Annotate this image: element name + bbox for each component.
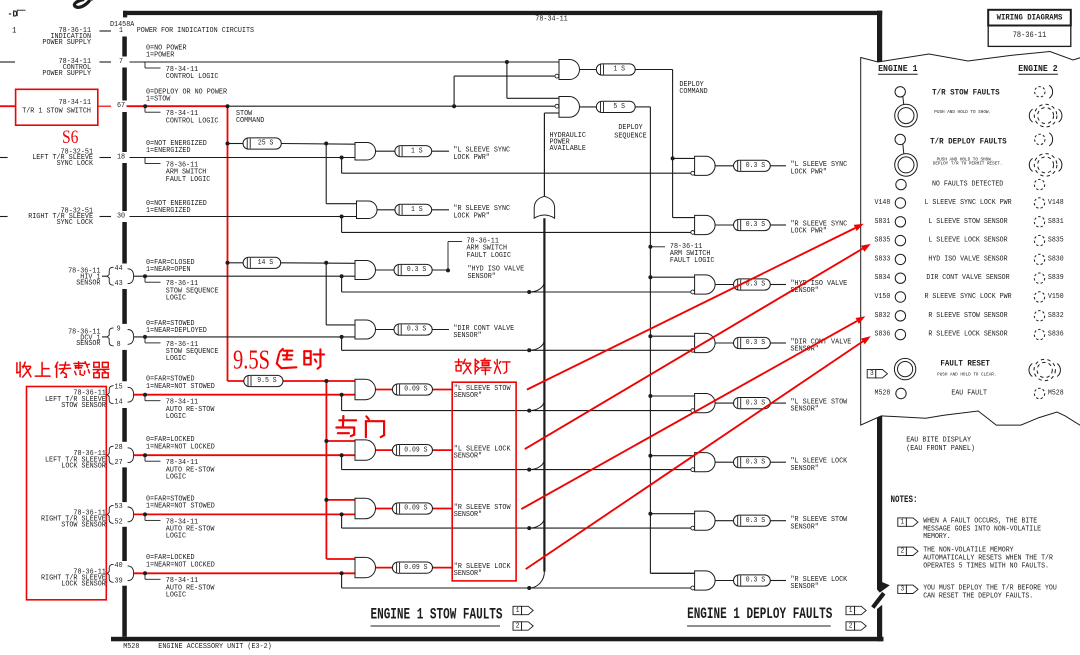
svg-text:30: 30 <box>117 213 125 221</box>
svg-text:HYD ISO VALVE SENSOR: HYD ISO VALVE SENSOR <box>928 255 1008 263</box>
svg-text:DEPLOY: DEPLOY <box>618 124 643 132</box>
svg-text:R SLEEVE LOCK SENSOR: R SLEEVE LOCK SENSOR <box>928 331 1008 339</box>
svg-text:78-34-11: 78-34-11 <box>535 15 568 23</box>
svg-text:0.09 S: 0.09 S <box>404 446 428 454</box>
svg-text:0.3 S: 0.3 S <box>746 517 766 525</box>
svg-text:ENGINE 2: ENGINE 2 <box>1018 63 1058 74</box>
svg-text:53: 53 <box>115 503 123 511</box>
svg-text:SENSOR": SENSOR" <box>791 523 819 531</box>
svg-text:0.09 S: 0.09 S <box>404 505 428 513</box>
svg-text:T/R 1 STOW SWITCH: T/R 1 STOW SWITCH <box>22 108 91 116</box>
svg-text:L SLEEVE SYNC LOCK PWR: L SLEEVE SYNC LOCK PWR <box>924 199 1012 207</box>
svg-text:52: 52 <box>115 518 123 526</box>
svg-text:1: 1 <box>516 607 520 615</box>
svg-text:9.5S: 9.5S <box>233 345 270 375</box>
svg-text:POWER SUPPLY: POWER SUPPLY <box>42 70 91 78</box>
svg-text:0.3 S: 0.3 S <box>746 577 766 585</box>
svg-text:M528: M528 <box>1048 390 1064 398</box>
svg-text:S836: S836 <box>875 331 891 339</box>
svg-text:EAU FAULT: EAU FAULT <box>951 390 987 398</box>
svg-text:43: 43 <box>115 280 123 288</box>
svg-text:LOCK PWR": LOCK PWR" <box>453 212 489 220</box>
svg-text:1 S: 1 S <box>411 147 423 155</box>
svg-text:AVAILABLE: AVAILABLE <box>550 145 587 153</box>
svg-text:SENSOR": SENSOR" <box>454 511 482 519</box>
svg-text:SENSOR": SENSOR" <box>791 406 819 414</box>
svg-text:0.3 S: 0.3 S <box>746 281 766 289</box>
svg-text:COMMAND: COMMAND <box>679 88 708 96</box>
svg-text:LOGIC: LOGIC <box>166 474 187 482</box>
svg-text:AUTOMATICALLY RESETS WHEN THE: AUTOMATICALLY RESETS WHEN THE T/R <box>923 555 1053 563</box>
svg-text:S6: S6 <box>62 127 79 148</box>
svg-text:S833: S833 <box>875 255 891 263</box>
svg-text:1=STOW: 1=STOW <box>146 96 171 104</box>
svg-text:0.3 S: 0.3 S <box>746 162 766 170</box>
svg-text:1=NEAR=NOT STOWED: 1=NEAR=NOT STOWED <box>146 383 215 391</box>
svg-text:POWER SUPPLY: POWER SUPPLY <box>42 39 91 47</box>
svg-text:SENSOR": SENSOR" <box>454 570 482 578</box>
svg-text:14: 14 <box>115 399 123 407</box>
svg-text:DIR CONT VALVE SENSOR: DIR CONT VALVE SENSOR <box>926 274 1010 282</box>
svg-text:SENSOR": SENSOR" <box>791 583 819 591</box>
svg-text:S831: S831 <box>1048 218 1064 226</box>
svg-text:-D: -D <box>8 9 18 20</box>
svg-text:1=NEAR=NOT LOCKED: 1=NEAR=NOT LOCKED <box>146 561 215 569</box>
svg-text:SENSOR": SENSOR" <box>454 392 482 400</box>
svg-text:SENSOR": SENSOR" <box>468 273 496 281</box>
svg-text:S831: S831 <box>875 218 891 226</box>
svg-text:STOW SENSOR: STOW SENSOR <box>61 522 106 530</box>
svg-text:SENSOR": SENSOR" <box>453 332 481 340</box>
svg-text:SENSOR: SENSOR <box>76 340 101 348</box>
svg-text:SYNC LOCK: SYNC LOCK <box>57 219 94 227</box>
svg-text:S839: S839 <box>1048 274 1064 282</box>
svg-text:NOTES:: NOTES: <box>891 494 918 505</box>
svg-text:FAULT LOGIC: FAULT LOGIC <box>467 252 512 260</box>
svg-text:1: 1 <box>901 518 905 526</box>
svg-text:LOCK SENSOR: LOCK SENSOR <box>61 581 106 589</box>
svg-text:1=NEAR=OPEN: 1=NEAR=OPEN <box>146 266 191 274</box>
svg-text:CONTROL LOGIC: CONTROL LOGIC <box>166 73 219 81</box>
svg-text:1=NEAR=DEPLOYED: 1=NEAR=DEPLOYED <box>146 327 207 335</box>
svg-text:1=NEAR=NOT LOCKED: 1=NEAR=NOT LOCKED <box>146 443 215 451</box>
svg-text:S830: S830 <box>1048 255 1064 263</box>
svg-text:FAULT LOGIC: FAULT LOGIC <box>166 176 211 184</box>
svg-text:1: 1 <box>12 26 17 36</box>
svg-text:SEQUENCE: SEQUENCE <box>614 133 647 141</box>
svg-text:1=NEAR=NOT STOWED: 1=NEAR=NOT STOWED <box>146 503 215 511</box>
svg-text:15: 15 <box>115 384 123 392</box>
svg-text:LOGIC: LOGIC <box>166 592 187 600</box>
svg-text:14 S: 14 S <box>258 259 274 267</box>
svg-text:1 S: 1 S <box>613 66 625 74</box>
svg-text:ENGINE 1 STOW FAULTS: ENGINE 1 STOW FAULTS <box>371 605 503 623</box>
svg-text:ENGINE ACCESSORY UNIT (E3-2): ENGINE ACCESSORY UNIT (E3-2) <box>158 643 271 651</box>
svg-text:0.09 S: 0.09 S <box>404 564 428 572</box>
svg-text:V148: V148 <box>1048 199 1064 207</box>
svg-text:S832: S832 <box>1048 312 1064 320</box>
svg-text:SENSOR": SENSOR" <box>454 453 482 461</box>
svg-text:ENGINE 1: ENGINE 1 <box>878 63 918 74</box>
svg-text:FAULT LOGIC: FAULT LOGIC <box>670 257 715 265</box>
svg-text:0.3 S: 0.3 S <box>407 326 427 334</box>
svg-text:SENSOR": SENSOR" <box>791 465 819 473</box>
svg-text:1: 1 <box>849 607 853 615</box>
svg-text:T/R DEPLOY FAULTS: T/R DEPLOY FAULTS <box>930 137 1007 147</box>
svg-text:WHEN A FAULT OCCURS, THE BITE: WHEN A FAULT OCCURS, THE BITE <box>923 518 1037 526</box>
svg-text:25 S: 25 S <box>258 140 274 148</box>
svg-text:0.3 S: 0.3 S <box>407 266 427 274</box>
svg-text:0.3 S: 0.3 S <box>746 339 766 347</box>
svg-text:39: 39 <box>115 577 123 585</box>
svg-text:YOU MUST DEPLOY THE T/R BEFORE: YOU MUST DEPLOY THE T/R BEFORE YOU <box>923 585 1057 593</box>
svg-text:27: 27 <box>115 459 123 467</box>
svg-text:1=ENERGIZED: 1=ENERGIZED <box>146 147 191 155</box>
svg-text:0.09 S: 0.09 S <box>404 386 428 394</box>
svg-text:DEPLOY T/R TO PERMIT RESET.: DEPLOY T/R TO PERMIT RESET. <box>933 161 1003 167</box>
svg-text:S835: S835 <box>1048 237 1064 245</box>
svg-text:78-36-11: 78-36-11 <box>1013 31 1047 40</box>
svg-text:SYNC LOCK: SYNC LOCK <box>57 160 94 168</box>
svg-text:MESSAGE GOES INTO NON-VOLATILE: MESSAGE GOES INTO NON-VOLATILE <box>923 525 1041 533</box>
svg-text:(EAU FRONT PANEL): (EAU FRONT PANEL) <box>906 445 975 453</box>
svg-text:2: 2 <box>849 622 853 630</box>
svg-text:POWER FOR INDICATION CIRCUITS: POWER FOR INDICATION CIRCUITS <box>137 27 255 35</box>
svg-text:THE NON-VOLATILE MEMORY: THE NON-VOLATILE MEMORY <box>923 547 1014 555</box>
svg-text:40: 40 <box>115 562 123 570</box>
svg-text:LOGIC: LOGIC <box>166 295 187 303</box>
svg-text:18: 18 <box>117 154 125 162</box>
svg-text:7: 7 <box>119 58 123 66</box>
svg-text:NO FAULTS DETECTED: NO FAULTS DETECTED <box>932 181 1004 189</box>
svg-text:LOCK PWR": LOCK PWR" <box>791 228 827 236</box>
svg-text:67: 67 <box>117 102 125 110</box>
svg-text:1 S: 1 S <box>411 206 423 214</box>
svg-text:LOGIC: LOGIC <box>166 533 187 541</box>
svg-text:CONTROL LOGIC: CONTROL LOGIC <box>166 117 219 125</box>
svg-text:1: 1 <box>119 27 123 35</box>
svg-text:0.3 S: 0.3 S <box>746 399 766 407</box>
svg-text:LOCK PWR": LOCK PWR" <box>791 168 827 176</box>
svg-text:28: 28 <box>115 444 123 452</box>
svg-text:V150: V150 <box>1048 293 1064 301</box>
svg-text:LOGIC: LOGIC <box>166 413 187 421</box>
svg-text:1=ENERGIZED: 1=ENERGIZED <box>146 207 191 215</box>
svg-text:LOGIC: LOGIC <box>166 355 187 363</box>
svg-text:R SLEEVE STOW SENSOR: R SLEEVE STOW SENSOR <box>928 312 1008 320</box>
svg-text:M528: M528 <box>875 390 891 398</box>
svg-text:STOW SENSOR: STOW SENSOR <box>61 402 106 410</box>
svg-text:PUSH AND HOLD TO SHOW.: PUSH AND HOLD TO SHOW. <box>934 109 991 115</box>
svg-text:EAU BITE DISPLAY: EAU BITE DISPLAY <box>906 437 971 445</box>
svg-text:0.3 S: 0.3 S <box>746 221 766 229</box>
svg-text:V150: V150 <box>875 293 891 301</box>
svg-text:S835: S835 <box>875 237 891 245</box>
svg-text:MEMORY.: MEMORY. <box>923 533 951 541</box>
svg-text:WIRING DIAGRAMS: WIRING DIAGRAMS <box>997 13 1063 22</box>
svg-text:CAN RESET THE DEPLOY FAULTS.: CAN RESET THE DEPLOY FAULTS. <box>923 593 1033 601</box>
svg-text:S834: S834 <box>875 274 891 282</box>
svg-text:FAULT RESET: FAULT RESET <box>940 358 990 368</box>
svg-text:M528: M528 <box>123 643 140 651</box>
svg-text:44: 44 <box>115 265 123 273</box>
svg-text:1=POWER: 1=POWER <box>146 52 175 60</box>
svg-text:COMMAND: COMMAND <box>236 117 265 125</box>
svg-text:3: 3 <box>870 370 874 378</box>
svg-text:78-34-11: 78-34-11 <box>59 99 92 107</box>
svg-text:LOCK PWR": LOCK PWR" <box>453 154 489 162</box>
svg-text:0.3 S: 0.3 S <box>746 458 766 466</box>
svg-text:S836: S836 <box>1048 331 1064 339</box>
svg-text:5 S: 5 S <box>613 103 625 111</box>
svg-text:2: 2 <box>516 622 520 630</box>
svg-text:L SLEEVE STOW SENSOR: L SLEEVE STOW SENSOR <box>928 218 1008 226</box>
svg-text:3: 3 <box>901 586 905 594</box>
svg-text:PUSH AND HOLD TO CLEAR.: PUSH AND HOLD TO CLEAR. <box>937 372 996 378</box>
svg-text:S832: S832 <box>875 312 891 320</box>
svg-text:ENGINE 1 DEPLOY FAULTS: ENGINE 1 DEPLOY FAULTS <box>687 605 832 623</box>
svg-text:V148: V148 <box>875 199 891 207</box>
svg-text:OPERATES 5 TIMES WITH NO FAULT: OPERATES 5 TIMES WITH NO FAULTS. <box>923 562 1049 570</box>
svg-text:9.5 S: 9.5 S <box>257 377 277 385</box>
svg-text:8: 8 <box>117 341 121 349</box>
svg-text:R SLEEVE SYNC LOCK PWR: R SLEEVE SYNC LOCK PWR <box>924 293 1012 301</box>
svg-text:T/R STOW FAULTS: T/R STOW FAULTS <box>932 88 1000 98</box>
svg-text:9: 9 <box>117 326 121 334</box>
svg-text:2: 2 <box>901 548 905 556</box>
svg-text:SENSOR: SENSOR <box>76 279 101 287</box>
svg-text:L SLEEVE LOCK SENSOR: L SLEEVE LOCK SENSOR <box>928 237 1008 245</box>
svg-text:LOCK SENSOR: LOCK SENSOR <box>61 462 106 470</box>
